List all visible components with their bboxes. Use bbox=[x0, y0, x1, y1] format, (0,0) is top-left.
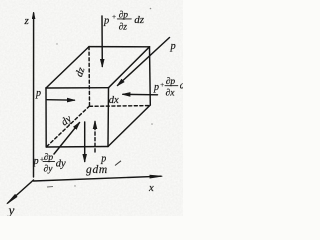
svg-text:dx: dx bbox=[109, 95, 119, 106]
box top-left depth edge bbox=[46, 47, 89, 88]
svg-text:p: p bbox=[103, 15, 109, 26]
x-axis bbox=[34, 176, 162, 181]
svg-text:+: + bbox=[112, 13, 117, 21]
svg-text:p: p bbox=[100, 153, 106, 164]
svg-text:x: x bbox=[148, 183, 154, 194]
svg-text:∂p: ∂p bbox=[119, 11, 129, 21]
svg-text:∂y: ∂y bbox=[44, 164, 54, 174]
arrow g dm gravity force bbox=[84, 122, 86, 162]
svg-text:∂x: ∂x bbox=[166, 88, 176, 98]
speck below x-axis bbox=[47, 186, 53, 189]
speck bottom mid bbox=[74, 185, 75, 186]
box front left edge bbox=[45, 88, 47, 147]
svg-text:∂p: ∂p bbox=[166, 77, 176, 87]
svg-text:dz: dz bbox=[134, 14, 145, 26]
fraction bar of dp/dz bbox=[117, 18, 131, 20]
speck near gdm bbox=[115, 161, 121, 166]
arrow p from bottom face (dashed shaft) bbox=[94, 127, 96, 152]
box bottom-right depth edge bbox=[108, 105, 150, 147]
arrow p+dp/dz dz onto top face bbox=[101, 16, 103, 67]
y-axis bbox=[8, 180, 34, 203]
hidden bottom-left depth edge (dashed) bbox=[46, 106, 89, 147]
z-axis bbox=[33, 13, 35, 177]
box front right edge bbox=[107, 88, 110, 147]
hidden back-left vertical edge (dashed) bbox=[88, 47, 91, 106]
arrow p+dp/dx dx onto right face bbox=[123, 93, 158, 96]
arrow p+dp/dy dy onto front face bbox=[54, 123, 80, 155]
svg-text:p: p bbox=[170, 41, 176, 52]
svg-text:∂z: ∂z bbox=[119, 23, 128, 33]
box back right edge bbox=[149, 47, 152, 105]
svg-text:z: z bbox=[24, 15, 30, 27]
fraction bar of dp/dx bbox=[165, 85, 178, 87]
arrow p diagonal onto back-right face bbox=[118, 38, 170, 86]
fraction bar of dp/dy bbox=[43, 160, 55, 162]
speck mid bbox=[56, 43, 57, 44]
box front bottom edge bbox=[46, 146, 108, 149]
svg-text:y: y bbox=[7, 203, 15, 217]
svg-text:p: p bbox=[33, 156, 39, 167]
box front top edge bbox=[46, 87, 109, 89]
speck right bbox=[151, 123, 153, 125]
svg-text:dy: dy bbox=[56, 159, 66, 170]
svg-text:+: + bbox=[160, 81, 165, 89]
speck top right bbox=[150, 8, 152, 10]
svg-text:p: p bbox=[153, 82, 159, 93]
svg-text:p: p bbox=[35, 88, 41, 99]
box back top edge bbox=[89, 46, 150, 48]
svg-text:gdm: gdm bbox=[86, 164, 108, 176]
hidden back bottom edge (dashed) bbox=[90, 105, 151, 108]
svg-text:∂p: ∂p bbox=[44, 153, 54, 163]
box top-right depth edge bbox=[109, 47, 150, 88]
arrow p on left face bbox=[47, 99, 75, 102]
svg-text:d: d bbox=[180, 80, 183, 91]
